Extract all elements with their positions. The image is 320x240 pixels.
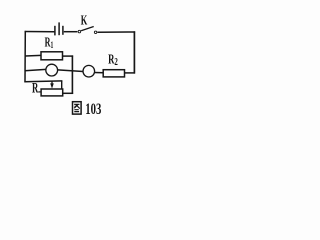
wire rheostat right end to inner-right vertical bbox=[63, 92, 73, 94]
svg-text:103: 103 bbox=[85, 100, 101, 118]
battery B1 plate short left bbox=[54, 26, 56, 36]
resistor R1 body bbox=[41, 52, 63, 60]
wire inner-right vertical bbox=[71, 55, 73, 94]
wire stub R label to rheostat box bbox=[38, 91, 41, 93]
switch K contact right bbox=[94, 31, 97, 34]
svg-text:R1: R1 bbox=[45, 35, 54, 50]
wire battery to switch bbox=[64, 31, 78, 33]
rheostat wiper arrow shaft bbox=[51, 81, 53, 85]
svg-text:K: K bbox=[81, 14, 88, 29]
wire bottom-left horizontal bbox=[24, 80, 62, 83]
wire switch to top-right corner bbox=[97, 31, 135, 33]
wire top-left horizontal bbox=[25, 31, 55, 33]
battery B1 plate tall middle bbox=[58, 22, 60, 35]
rheostat wiper arrowhead bbox=[50, 83, 54, 88]
caption glyph 图 drawn as strokes bbox=[73, 102, 82, 114]
wire left vertical to R1 bbox=[25, 54, 41, 57]
wire M1 to M2 bbox=[58, 70, 83, 72]
wire left vertical bbox=[24, 31, 26, 83]
switch K contact left bbox=[78, 30, 81, 32]
resistor R2 body bbox=[103, 70, 124, 77]
meter M2 (galvanometer circle) bbox=[83, 65, 95, 77]
wire drop to rheostat right terminal bbox=[61, 81, 63, 89]
wire left vertical to M1 bbox=[25, 69, 46, 70]
meter M1 (galvanometer circle) bbox=[46, 64, 58, 76]
svg-text:R: R bbox=[32, 79, 38, 96]
wire R1 to corner bbox=[63, 55, 73, 57]
battery B1 plate short right bbox=[62, 26, 64, 35]
svg-text:R2: R2 bbox=[108, 53, 118, 68]
rheostat R body bbox=[41, 89, 63, 96]
wire right vertical bbox=[133, 31, 135, 73]
wire R2 to right vertical bbox=[125, 72, 136, 74]
switch K blade bbox=[81, 27, 94, 31]
wire M2 to R2 bbox=[95, 72, 104, 74]
